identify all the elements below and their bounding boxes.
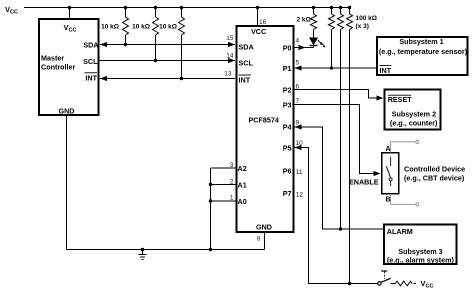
svg-text:9: 9 bbox=[296, 120, 300, 127]
svg-text:INT: INT bbox=[85, 74, 97, 83]
svg-text:P6: P6 bbox=[283, 167, 292, 176]
svg-text:VCC: VCC bbox=[64, 23, 77, 33]
svg-text:Master: Master bbox=[41, 54, 64, 63]
svg-text:P3: P3 bbox=[283, 100, 292, 109]
svg-text:P1: P1 bbox=[283, 64, 292, 73]
svg-text:PCF8574: PCF8574 bbox=[249, 116, 279, 125]
svg-text:10 kΩ: 10 kΩ bbox=[101, 24, 119, 31]
svg-text:16: 16 bbox=[259, 19, 267, 26]
svg-text:INT: INT bbox=[239, 76, 251, 85]
svg-text:Subsystem 1: Subsystem 1 bbox=[399, 37, 443, 46]
svg-text:Subsystem 2: Subsystem 2 bbox=[392, 109, 436, 118]
svg-text:VCC: VCC bbox=[251, 27, 266, 36]
svg-text:A: A bbox=[385, 144, 390, 153]
svg-text:100 kΩ: 100 kΩ bbox=[356, 15, 377, 22]
svg-text:2: 2 bbox=[230, 179, 234, 186]
svg-text:RESET: RESET bbox=[388, 95, 413, 104]
svg-text:15: 15 bbox=[226, 35, 234, 42]
svg-text:VCC: VCC bbox=[5, 5, 18, 15]
svg-text:P2: P2 bbox=[283, 85, 292, 94]
svg-text:GND: GND bbox=[59, 107, 75, 116]
svg-text:B: B bbox=[385, 195, 390, 204]
svg-text:(x 3): (x 3) bbox=[356, 23, 369, 30]
svg-text:P7: P7 bbox=[283, 189, 292, 198]
svg-text:8: 8 bbox=[257, 236, 261, 243]
svg-text:SCL: SCL bbox=[239, 59, 254, 68]
svg-text:4: 4 bbox=[296, 38, 300, 45]
svg-text:10: 10 bbox=[296, 140, 304, 147]
svg-text:SDA: SDA bbox=[83, 41, 98, 50]
svg-text:(e.g., counter): (e.g., counter) bbox=[390, 118, 438, 127]
svg-text:2 kΩ: 2 kΩ bbox=[297, 17, 311, 24]
svg-text:P5: P5 bbox=[283, 143, 292, 152]
svg-text:10 kΩ: 10 kΩ bbox=[132, 24, 150, 31]
svg-text:VCC: VCC bbox=[421, 279, 434, 289]
svg-text:(e.g., CBT device): (e.g., CBT device) bbox=[404, 174, 465, 183]
svg-text:12: 12 bbox=[296, 192, 304, 199]
svg-text:A1: A1 bbox=[238, 181, 247, 190]
svg-text:ALARM: ALARM bbox=[387, 227, 413, 236]
svg-text:P0: P0 bbox=[283, 43, 292, 52]
svg-text:10 kΩ: 10 kΩ bbox=[159, 24, 177, 31]
svg-text:Controlled Device: Controlled Device bbox=[404, 165, 465, 174]
svg-text:11: 11 bbox=[296, 169, 303, 176]
svg-text:13: 13 bbox=[224, 71, 232, 78]
svg-text:(e.g., temperature sensor): (e.g., temperature sensor) bbox=[379, 47, 468, 56]
svg-text:P4: P4 bbox=[283, 123, 292, 132]
svg-text:1: 1 bbox=[230, 195, 234, 202]
svg-text:INT: INT bbox=[380, 66, 392, 75]
svg-text:5: 5 bbox=[296, 60, 300, 67]
svg-text:14: 14 bbox=[226, 53, 234, 60]
svg-text:3: 3 bbox=[230, 162, 234, 169]
svg-text:Controller: Controller bbox=[41, 63, 76, 72]
svg-text:ENABLE: ENABLE bbox=[349, 177, 379, 186]
svg-text:SCL: SCL bbox=[83, 57, 98, 66]
svg-text:SDA: SDA bbox=[239, 43, 254, 52]
svg-text:(e.g., alarm system): (e.g., alarm system) bbox=[387, 255, 455, 264]
svg-text:A0: A0 bbox=[238, 197, 247, 206]
svg-text:A2: A2 bbox=[238, 164, 247, 173]
svg-text:6: 6 bbox=[296, 84, 300, 91]
svg-text:GND: GND bbox=[256, 223, 272, 232]
svg-text:7: 7 bbox=[296, 98, 300, 105]
